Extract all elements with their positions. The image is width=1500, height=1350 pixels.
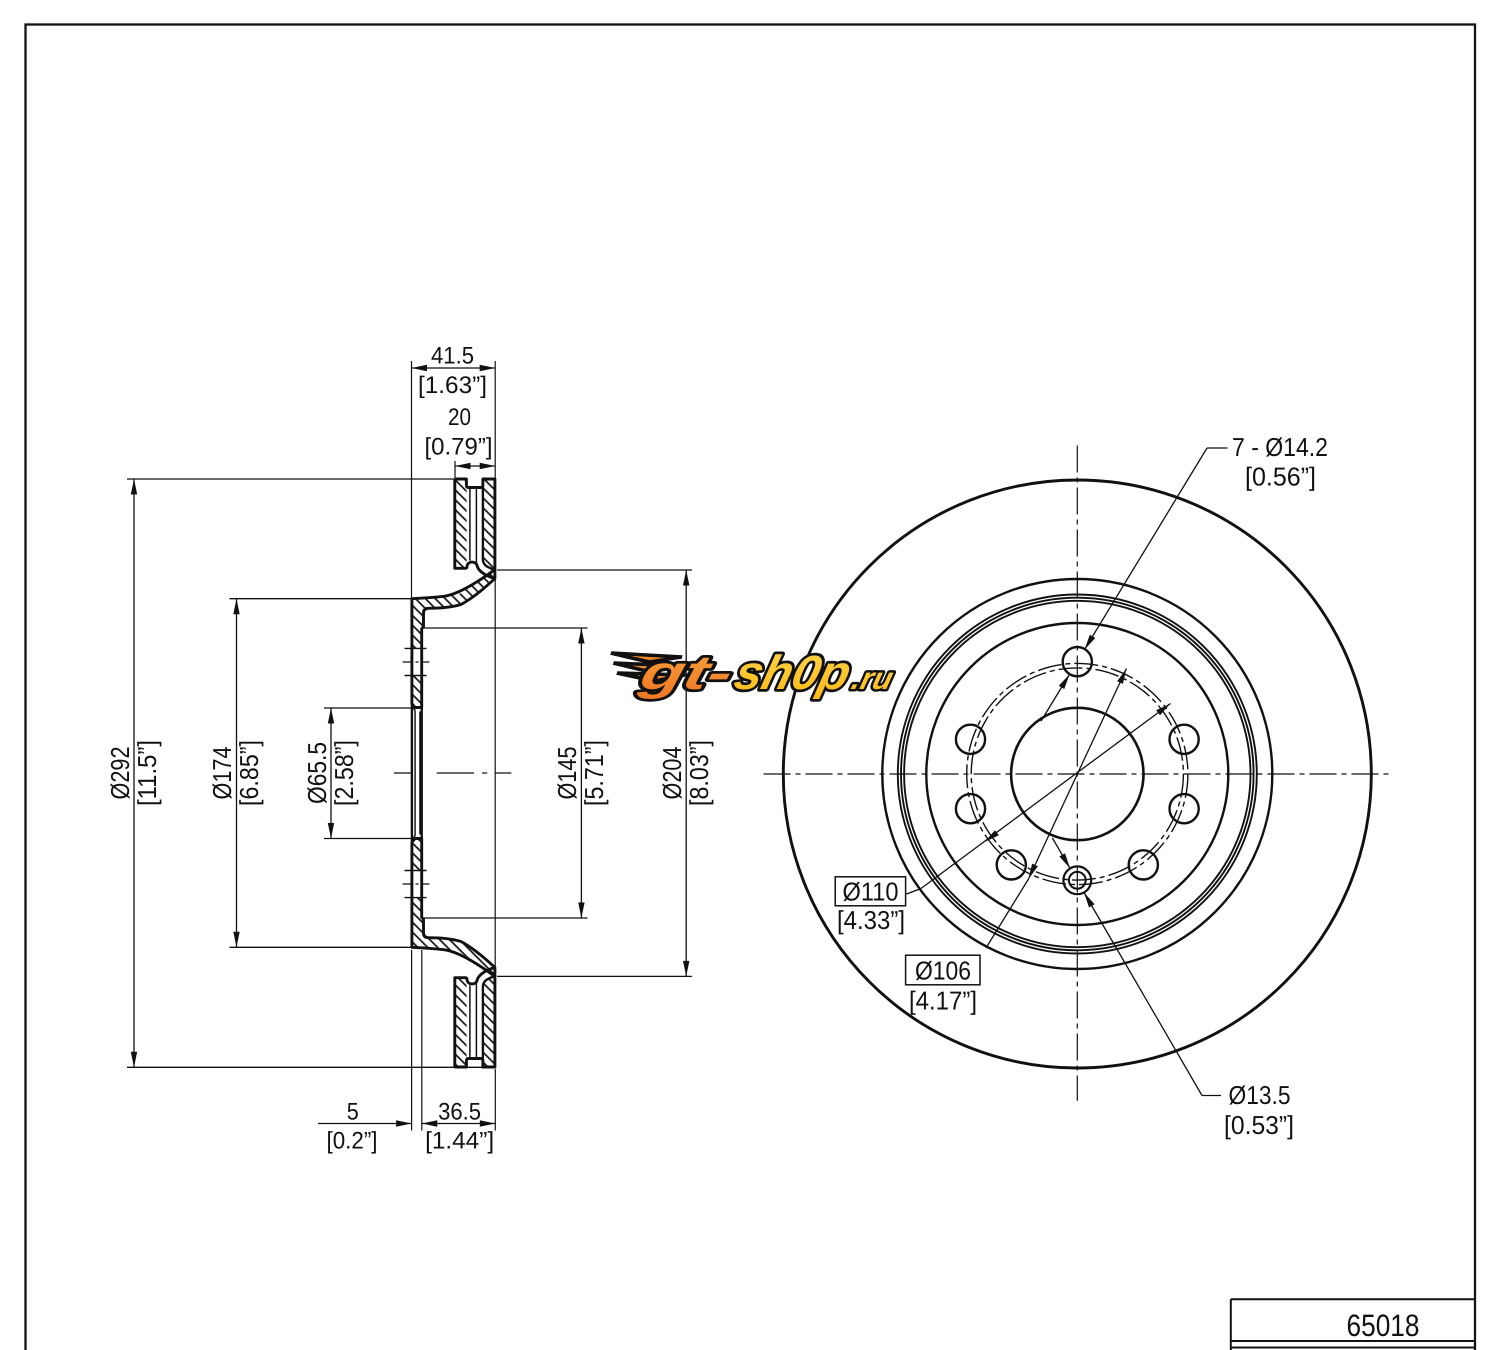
svg-text:[0.53”]: [0.53”] xyxy=(1224,1110,1294,1140)
dimension 20 friction band width xyxy=(454,461,456,478)
section: friction band & hat outline (top half) xyxy=(412,479,495,708)
front view: bolt hole 6 (7x Ø14.2) xyxy=(956,794,985,823)
svg-text:[0.2”]: [0.2”] xyxy=(327,1128,378,1155)
svg-text:sh0p: sh0p xyxy=(729,647,856,700)
dimension Ø204 xyxy=(497,569,692,571)
front view: centre bore xyxy=(1011,708,1143,840)
section: friction band & hat outline (bottom half) xyxy=(412,839,495,1068)
dimension 5 flange thickness xyxy=(411,950,413,1131)
svg-text:gt-: gt- xyxy=(634,647,739,700)
svg-text:Ø106: Ø106 xyxy=(915,956,971,986)
section hatch: hat cone & flange (top) xyxy=(412,570,495,649)
label 7-Ø14.2 with leader to top bolt hole xyxy=(1207,447,1228,449)
svg-text:Ø145: Ø145 xyxy=(552,747,582,800)
front view: bolt hole 5 (7x Ø14.2) xyxy=(997,850,1026,879)
svg-text:65018: 65018 xyxy=(1347,1308,1420,1343)
section: flange bolt hole (top) xyxy=(405,647,427,649)
front view: bolt hole 3 (7x Ø14.2) xyxy=(1170,794,1199,823)
svg-text:7 - Ø14.2: 7 - Ø14.2 xyxy=(1232,432,1328,462)
dimension Ø145 xyxy=(424,627,588,629)
dimension 41.5 overall width xyxy=(411,361,413,598)
section: vent vane (top) xyxy=(469,489,471,561)
svg-text:[5.71”]: [5.71”] xyxy=(579,740,609,806)
svg-text:Ø110: Ø110 xyxy=(843,877,899,907)
section: outboard plate outline (top) xyxy=(455,479,494,578)
front view: outer diameter circle xyxy=(783,480,1371,1068)
front view: bolt hole 2 (7x Ø14.2) xyxy=(1170,725,1199,754)
front view: locating pin hole Ø13.5 xyxy=(1063,866,1091,894)
section: vent vane (bottom) xyxy=(469,985,471,1057)
svg-text:[8.03”]: [8.03”] xyxy=(684,740,714,806)
front view: hat step circles xyxy=(898,595,1257,954)
title block xyxy=(1231,1298,1475,1300)
section hatch: inboard plate (top) xyxy=(483,479,495,570)
svg-text:[4.33”]: [4.33”] xyxy=(837,905,905,935)
front view: vertical centre line xyxy=(1076,446,1078,1101)
svg-text:[4.17”]: [4.17”] xyxy=(909,986,977,1016)
section hatch: flange below bolt hole (top) xyxy=(412,676,422,708)
gt-shop.ru watermark logo xyxy=(604,647,901,700)
svg-text:Ø174: Ø174 xyxy=(207,747,237,800)
label Ø13.5 with leader to pin hole xyxy=(1202,1095,1221,1097)
svg-text:[1.44”]: [1.44”] xyxy=(425,1128,494,1155)
svg-text:Ø204: Ø204 xyxy=(657,747,687,800)
svg-text:[2.58”]: [2.58”] xyxy=(329,740,359,806)
svg-text:41.5: 41.5 xyxy=(431,343,474,370)
svg-text:20: 20 xyxy=(448,404,471,431)
dimension Ø106 pin hole circle xyxy=(986,879,1029,948)
svg-text:Ø292: Ø292 xyxy=(105,747,135,800)
dimension Ø65.5 xyxy=(324,707,413,709)
section: centre bore surfaces xyxy=(411,704,413,842)
section hatch: outboard plate (top) xyxy=(455,479,467,568)
svg-text:5: 5 xyxy=(347,1099,359,1126)
front view: bolt hole 4 (7x Ø14.2) xyxy=(1129,850,1158,879)
section: vent inboard wall (bottom) xyxy=(483,976,495,1058)
section hatch: inboard plate (bottom) xyxy=(483,976,495,1067)
extension line inboard face xyxy=(494,579,496,968)
section: flange bolt hole (bottom) xyxy=(405,897,427,899)
svg-text:Ø65.5: Ø65.5 xyxy=(302,742,332,804)
svg-text:[1.63”]: [1.63”] xyxy=(418,372,487,399)
svg-text:[6.85”]: [6.85”] xyxy=(234,740,264,806)
front view: bolt hole 1 (7x Ø14.2) xyxy=(1063,647,1092,676)
section hatch: hat cone & flange (bottom) xyxy=(412,898,495,977)
dimension 36.5 hat depth xyxy=(494,1069,496,1131)
front view: hat inner circle xyxy=(926,623,1228,925)
front view: friction band inner circle xyxy=(882,579,1272,969)
front view: bolt hole 7 (7x Ø14.2) xyxy=(956,725,985,754)
svg-text:[0.56”]: [0.56”] xyxy=(1245,462,1316,492)
front view: horizontal centre line xyxy=(764,773,1392,775)
dimension Ø292 xyxy=(127,478,455,480)
dimension Ø174 xyxy=(230,598,412,600)
svg-text:[0.79”]: [0.79”] xyxy=(425,434,493,461)
svg-text:[11.5”]: [11.5”] xyxy=(132,740,162,806)
section: outboard plate outline (bottom) xyxy=(455,968,494,1067)
section hatch: flange below bolt hole (bottom) xyxy=(412,839,422,871)
section hatch: outboard plate (bottom) xyxy=(455,978,467,1067)
dimension Ø110 bolt circle xyxy=(907,889,922,895)
svg-text:Ø13.5: Ø13.5 xyxy=(1229,1080,1291,1110)
section: vent inboard wall (top) xyxy=(483,488,495,570)
front view: bolt circles (dash-dot) xyxy=(967,663,1188,884)
svg-text:36.5: 36.5 xyxy=(438,1099,481,1126)
section centre line xyxy=(394,772,413,774)
